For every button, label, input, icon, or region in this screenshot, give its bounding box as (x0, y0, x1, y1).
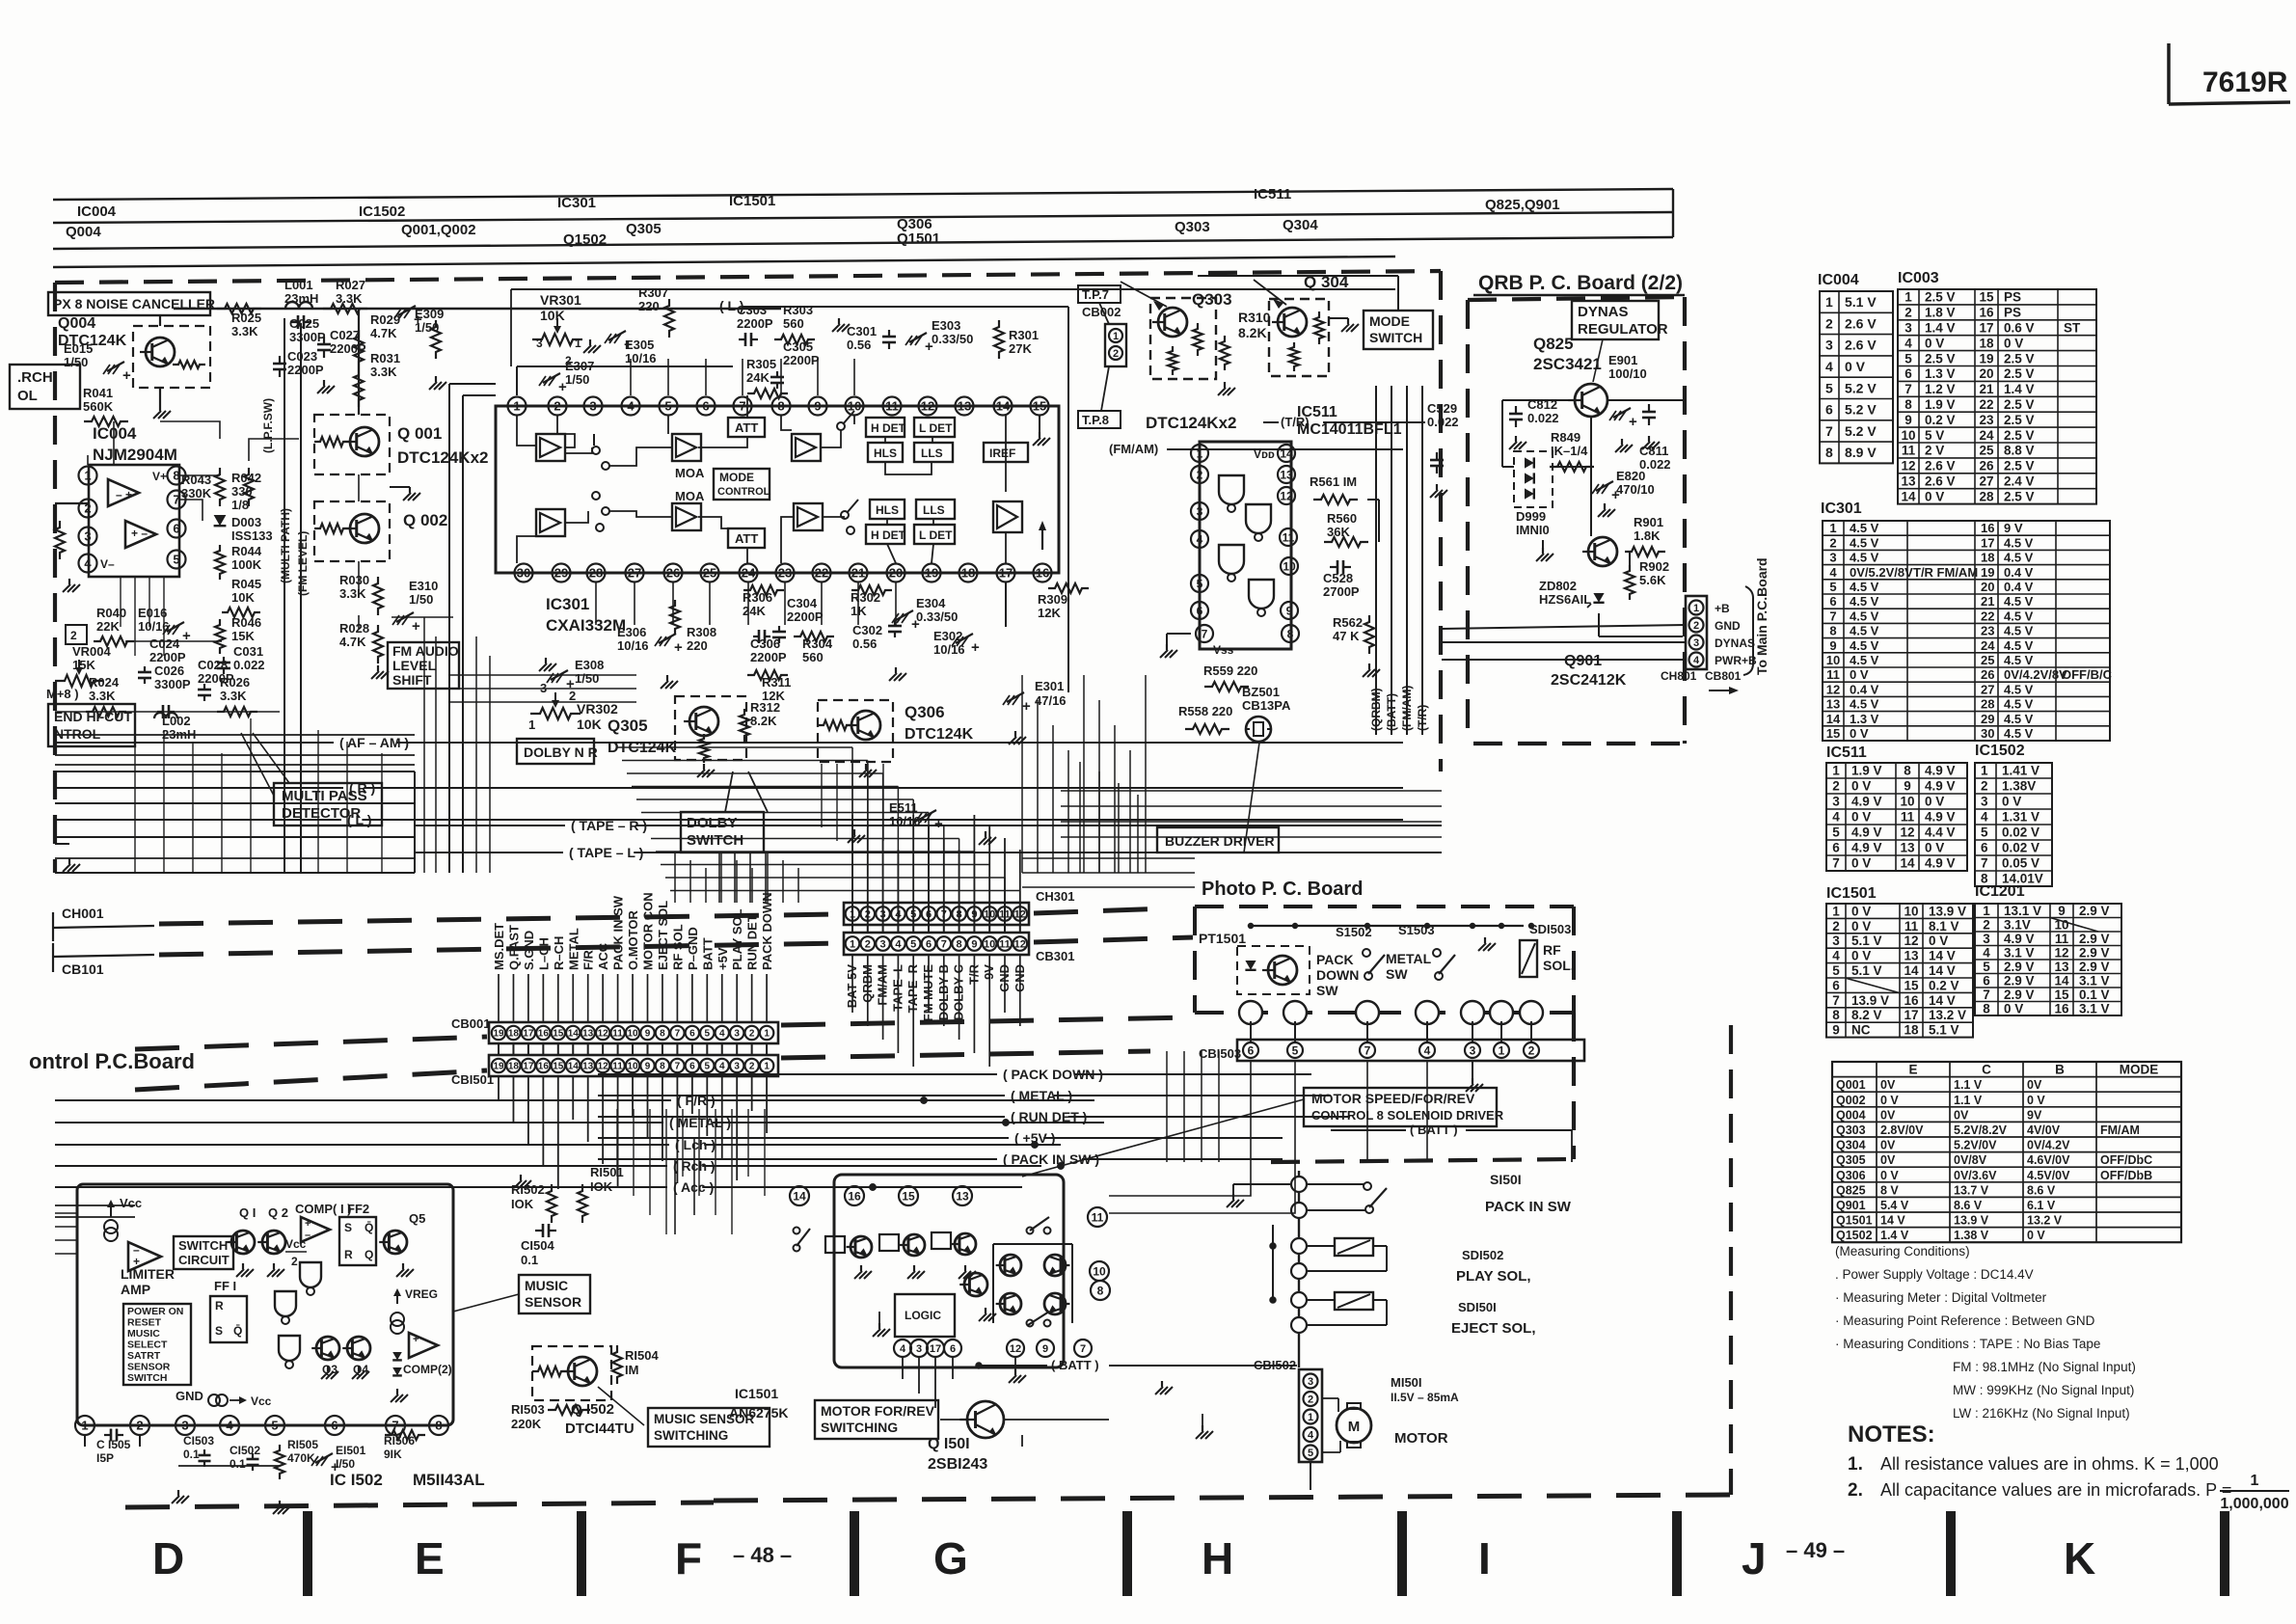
wire CB001-CB1501 join 1 (766, 1043, 768, 1055)
pin IC511-11 (1280, 528, 1297, 546)
svg-text:8.1 V: 8.1 V (1929, 919, 1959, 934)
wire CB1501-1 down (766, 1076, 768, 1133)
wire CB001-CB1501 join 5 (706, 1043, 708, 1055)
svg-text:MUSIC: MUSIC (525, 1278, 568, 1293)
wire IC301 inner 1 (517, 416, 536, 446)
pin IC511-10 (1281, 557, 1298, 575)
svg-text:7: 7 (1904, 382, 1912, 396)
pin CB1503-1 (1494, 1042, 1509, 1058)
svg-text:1: 1 (1981, 764, 1988, 778)
pin CB001-1 (760, 1026, 773, 1040)
switch cell lower (592, 492, 600, 500)
ground left low (55, 843, 69, 845)
wire IC511 right loop (1367, 499, 1379, 501)
svg-text:1.4 V: 1.4 V (1880, 1229, 1909, 1242)
svg-text:2: 2 (1528, 1043, 1535, 1057)
wire MPX inner c (113, 421, 115, 465)
svg-text:+5V: +5V (716, 947, 730, 970)
box L DET lower (914, 525, 955, 544)
svg-text:+B: +B (1715, 602, 1730, 615)
wire CB1501-9 down (647, 1076, 649, 1139)
pin IC511-2 (1191, 466, 1208, 483)
wire center risers to CH301 staircase (851, 747, 853, 903)
svg-text:Q305: Q305 (608, 717, 648, 735)
wire dynas pointer (1593, 339, 1603, 382)
svg-text:4.7K: 4.7K (339, 635, 366, 649)
transistor Q1502 (568, 1357, 597, 1386)
svg-text:HZS6AIL: HZS6AIL (1539, 592, 1591, 607)
svg-text:2200P: 2200P (149, 650, 186, 664)
svg-text:220K: 220K (511, 1417, 542, 1431)
wire CB1503 pins to bus (1250, 1061, 1252, 1162)
svg-text:13: 13 (958, 399, 971, 414)
svg-text:8.6 V: 8.6 V (1954, 1199, 1983, 1212)
pin IC301-21 (850, 564, 868, 582)
wire IC301 inner 20 (886, 519, 888, 525)
svg-text:3.3K: 3.3K (89, 689, 116, 703)
pin IC301-2 (549, 397, 567, 416)
svg-text:R902: R902 (1639, 559, 1669, 574)
svg-text:( TAPE – R ): ( TAPE – R ) (571, 818, 647, 833)
svg-text:0 V: 0 V (1925, 841, 1944, 855)
wire left mesh horizontals (55, 734, 415, 736)
transistor Q002 dashed box (314, 501, 390, 561)
svg-text:0 V: 0 V (1850, 667, 1869, 682)
svg-text:21: 21 (1981, 594, 1994, 609)
ground IC1502 a (177, 1490, 179, 1496)
svg-text:MOTOR FOR/REV: MOTOR FOR/REV (821, 1403, 935, 1419)
svg-text:1/50: 1/50 (575, 671, 599, 686)
svg-text:SENSOR: SENSOR (525, 1294, 581, 1310)
svg-text:R561 IM: R561 IM (1310, 474, 1357, 489)
svg-text:IC1501: IC1501 (1826, 885, 1877, 902)
box DOLBY SWITCH (681, 812, 764, 853)
pin CB001-9 (640, 1026, 654, 1040)
ground Q4 (358, 1366, 360, 1371)
wire IC301 inner 17 (746, 548, 748, 563)
svg-text:DTC124K: DTC124K (905, 726, 974, 743)
ground C027 (323, 380, 325, 386)
svg-text:1: 1 (1499, 1043, 1505, 1057)
svg-text:4: 4 (627, 399, 635, 414)
svg-text:DTC124Kx2: DTC124Kx2 (397, 448, 489, 467)
H-bridge transistor TL (1000, 1255, 1021, 1276)
transistor Q306 (851, 711, 880, 740)
svg-text:T.P.8: T.P.8 (1082, 413, 1109, 427)
svg-text:VR301: VR301 (540, 292, 581, 308)
current source bottom (208, 1394, 220, 1406)
svg-text:MUSIC: MUSIC (127, 1328, 160, 1340)
wire motor bottom rail (1004, 1419, 1109, 1421)
svg-text:M+8 ): M+8 ) (46, 687, 79, 701)
wire Q001 collector drop (358, 474, 360, 501)
connector CB1502 (1299, 1369, 1322, 1462)
switch S1501 junction b (1291, 1203, 1307, 1218)
svg-text:E310: E310 (409, 579, 438, 593)
ground pin12 (1014, 1358, 1016, 1369)
box LLS upper (914, 443, 953, 462)
wire CB001-CB1501 join 3 (736, 1043, 738, 1055)
svg-text:21: 21 (851, 566, 865, 581)
svg-text:5: 5 (1292, 1043, 1299, 1057)
amp cell upper-mid (792, 434, 821, 461)
pin CH301-4 (891, 907, 905, 921)
net (T/R) vertical (1421, 386, 1423, 735)
gate IC511 D (1249, 580, 1274, 609)
pin IC004-5 (168, 551, 186, 569)
ground CB1503-3 (1472, 1061, 1473, 1078)
wire MPX inner e (160, 421, 220, 439)
svg-text:5: 5 (1981, 826, 1988, 840)
wire CB001-CB1501 join 15 (557, 1043, 559, 1055)
svg-text:All capacitance values are in: All capacitance values are in microfarad… (1880, 1480, 2231, 1500)
svg-text:T/R FM/AM: T/R FM/AM (1913, 565, 1978, 580)
svg-text:C: C (1982, 1063, 1991, 1077)
svg-text:V+: V+ (152, 470, 167, 483)
svg-text:8: 8 (1904, 397, 1912, 412)
svg-text:4.5 V: 4.5 V (2004, 653, 2034, 667)
pin IC004-6 (168, 520, 186, 538)
pin CB1501-4 (716, 1059, 729, 1072)
ground IC1502 b (279, 1501, 281, 1506)
svg-text:4.9 V: 4.9 V (1925, 779, 1956, 794)
svg-text:4.5 V: 4.5 V (1850, 638, 1879, 653)
svg-text:13: 13 (1904, 949, 1919, 963)
box SWITCH CIRCUIT (174, 1236, 233, 1269)
svg-text:4.5 V: 4.5 V (1850, 580, 1879, 594)
wire verticals right-mid band (1021, 675, 1023, 873)
svg-text:23: 23 (1979, 413, 1994, 427)
svg-text:10: 10 (627, 1029, 638, 1040)
svg-text:( +5V ): ( +5V ) (1014, 1130, 1055, 1146)
pin photo-2 (1520, 1001, 1543, 1024)
svg-text:2.9 V: 2.9 V (2004, 973, 2035, 988)
ground C529 (1436, 484, 1438, 490)
switch S1501 (1364, 1182, 1371, 1190)
wire vertical risers dolby to connector (674, 853, 676, 903)
ground Q1 (242, 1263, 244, 1269)
net (METAL) (55, 1122, 663, 1123)
svg-text:C026: C026 (154, 663, 184, 678)
wire mode switch feed (1198, 275, 1398, 277)
wire CB1501-5 down (706, 1076, 708, 1136)
svg-text:IC1501: IC1501 (729, 193, 775, 209)
pin CH301-8 (952, 907, 966, 921)
wire CB301-6 up (928, 903, 930, 925)
svg-text:SWITCH: SWITCH (687, 832, 743, 849)
svg-text:4.5 V: 4.5 V (1850, 609, 1879, 623)
main board dashed border top (55, 271, 1441, 283)
wire CB1503 bus turns (1109, 1162, 1251, 1196)
wire IC301 inner 22 (1005, 532, 1007, 563)
wire IC301 left verticals down (423, 617, 425, 873)
gate NOR upper (300, 1262, 321, 1287)
svg-text:2.5 V: 2.5 V (2004, 459, 2035, 474)
pin CB1501-17 (522, 1059, 535, 1072)
svg-text:7: 7 (1364, 1043, 1371, 1057)
svg-text:(FM LEVEL): (FM LEVEL) (296, 531, 310, 596)
svg-text:16: 16 (1036, 566, 1049, 581)
ground right1 (1202, 1414, 1203, 1425)
svg-text:0.4 V: 0.4 V (2004, 580, 2034, 594)
svg-text:13.2 V: 13.2 V (1929, 1008, 1966, 1022)
svg-text:S: S (215, 1324, 223, 1338)
svg-text:2: 2 (749, 1029, 755, 1040)
pin CB1501-19 (492, 1059, 505, 1072)
svg-text:5: 5 (1825, 380, 1833, 395)
box IREF (984, 443, 1028, 462)
gate IC511 A (1219, 475, 1244, 504)
svg-text:4: 4 (1832, 810, 1840, 825)
svg-text:2SC2412K: 2SC2412K (1551, 672, 1627, 689)
gate NOR low (279, 1336, 300, 1361)
pin IC1501-10 (1090, 1261, 1109, 1281)
svg-text:Q901: Q901 (1836, 1199, 1866, 1212)
wire right rail vertical (1298, 1171, 1300, 1367)
svg-text:29: 29 (1981, 712, 1994, 726)
svg-text:7: 7 (1202, 627, 1208, 640)
junction batt right (1270, 1243, 1276, 1249)
svg-text:Q1501: Q1501 (1836, 1214, 1873, 1228)
svg-text:9: 9 (1904, 779, 1911, 794)
ground Q5 (402, 1263, 404, 1269)
svg-text:K: K (2064, 1533, 2095, 1583)
svg-text:14: 14 (568, 1029, 580, 1040)
connector CB001 (489, 1022, 778, 1043)
wire MPX inner a (179, 474, 220, 476)
box POWER ON RESET... (123, 1304, 191, 1385)
svg-text:OFF/DbB: OFF/DbB (2100, 1169, 2152, 1182)
wire IC301 inner 10 (853, 416, 855, 424)
pin CB801-4 (1689, 653, 1704, 667)
transistor Q2 (262, 1231, 285, 1254)
wire CB001-CB1501 join 18 (512, 1043, 514, 1055)
svg-text:3: 3 (1832, 795, 1840, 809)
wire CB1503-7 (1366, 1021, 1368, 1042)
svg-text:RI504: RI504 (625, 1348, 659, 1363)
svg-text:14: 14 (568, 1062, 580, 1072)
svg-text:4.5 V: 4.5 V (2004, 697, 2034, 712)
svg-text:1: 1 (2251, 1473, 2259, 1489)
junction photo rail (1293, 924, 1298, 929)
pin photo-7 (1356, 1001, 1379, 1024)
wire ruler line 3 (53, 237, 1673, 249)
svg-text:4: 4 (1904, 336, 1912, 350)
svg-text:2.9 V: 2.9 V (2079, 960, 2110, 974)
svg-text:4.5 V: 4.5 V (2004, 551, 2034, 565)
svg-text:0 V: 0 V (1851, 856, 1871, 871)
ground E511 a (853, 829, 855, 835)
svg-text:IC I502: IC I502 (330, 1471, 383, 1489)
svg-text:21: 21 (1979, 382, 1994, 396)
svg-text:NOTES:: NOTES: (1848, 1421, 1935, 1448)
svg-text:1.9 V: 1.9 V (1925, 397, 1956, 412)
svg-text:DYNAS: DYNAS (1715, 636, 1755, 650)
wire pointer motor box (1022, 1099, 1304, 1177)
ground E308 (545, 658, 547, 663)
wire CB001-CB1501 join 7 (676, 1043, 678, 1055)
svg-text:3: 3 (589, 399, 596, 414)
svg-text:19: 19 (1979, 351, 1993, 365)
wire CB1501-13 down (587, 1076, 589, 1142)
pin IC511-3 (1191, 502, 1208, 520)
wire IC301 inner 13 (517, 536, 536, 563)
svg-text:10: 10 (627, 1062, 638, 1072)
ground Q2 (273, 1263, 275, 1269)
wire dolby bus verticals (718, 853, 720, 903)
wire q1502 pointer (598, 1387, 644, 1425)
wire CB301-2 up (867, 903, 869, 925)
photo transistor PT1501 (1268, 956, 1297, 985)
svg-text:1: 1 (81, 1419, 88, 1433)
pin IC1502-2 (130, 1416, 149, 1435)
wire CB301-7 up (943, 903, 945, 925)
svg-text:Q I50I: Q I50I (928, 1436, 970, 1452)
resistor Q305 emitter (699, 734, 709, 763)
svg-text:2: 2 (1829, 535, 1836, 550)
svg-text:19: 19 (925, 566, 938, 581)
pin CB301-6 (922, 936, 936, 951)
svg-text:Q̄: Q̄ (365, 1221, 373, 1234)
svg-text:7: 7 (1829, 609, 1836, 623)
test point T.P.7 (1078, 285, 1121, 303)
svg-text:4: 4 (1825, 359, 1833, 374)
svg-text:12: 12 (1901, 459, 1915, 474)
svg-text:1.3 V: 1.3 V (1850, 712, 1879, 726)
box MODE CONTROL (714, 469, 770, 500)
connector CH301 (844, 903, 1029, 925)
wire CB1501-10 down (632, 1076, 634, 1117)
transistor Q4 (347, 1337, 370, 1360)
svg-text:8.2K: 8.2K (1238, 325, 1267, 340)
pin CB001-5 (700, 1026, 714, 1040)
svg-text:14: 14 (793, 1189, 806, 1203)
svg-text:5: 5 (1197, 577, 1203, 590)
svg-text:9: 9 (2058, 904, 2066, 918)
svg-text:8: 8 (1287, 627, 1294, 640)
svg-text:0.33/50: 0.33/50 (932, 332, 973, 346)
switch pin22 lower (841, 511, 849, 519)
svg-text:5.2 V: 5.2 V (1845, 402, 1877, 418)
wire CH301-10 riser (988, 826, 990, 903)
svg-text:0 V: 0 V (1880, 1094, 1899, 1107)
svg-text:+: + (925, 338, 933, 355)
junction photo rail (1529, 924, 1534, 929)
diode D999 a (1525, 457, 1534, 468)
svg-text:SI50I: SI50I (1490, 1172, 1522, 1187)
svg-text:3: 3 (1197, 504, 1203, 518)
svg-text:3.1V: 3.1V (2004, 917, 2031, 932)
svg-text:3: 3 (1825, 338, 1833, 353)
svg-text:4: 4 (719, 1029, 725, 1040)
svg-text:2.9 V: 2.9 V (2079, 945, 2110, 960)
svg-text:MS.DET: MS.DET (492, 923, 506, 970)
svg-text:IC1201: IC1201 (1975, 883, 2025, 900)
pin CB301-8 (952, 936, 966, 951)
svg-text:22: 22 (1979, 397, 1993, 412)
svg-text:SW: SW (1386, 966, 1408, 982)
pin IC1501-14 (790, 1186, 809, 1205)
svg-text:Q306: Q306 (1836, 1169, 1866, 1182)
solenoid SD1502 (1335, 1238, 1373, 1256)
svg-text:0 V: 0 V (1925, 489, 1944, 503)
pin IC1502-7 (386, 1416, 405, 1435)
svg-text:PACK DOWN: PACK DOWN (760, 892, 774, 970)
pin IC1501-15 (899, 1186, 918, 1205)
svg-text:2 V: 2 V (1925, 444, 1944, 458)
svg-text:BZ501: BZ501 (1242, 685, 1280, 699)
svg-text:G: G (933, 1533, 968, 1583)
svg-text:18: 18 (1981, 551, 1994, 565)
svg-text:24: 24 (1979, 428, 1994, 443)
svg-text:4: 4 (1829, 565, 1837, 580)
svg-text:20: 20 (1981, 580, 1994, 594)
pin IC1502-3 (176, 1416, 195, 1435)
wire CB1501-12 down (602, 1076, 604, 1164)
switch cell upper (592, 447, 600, 454)
pin IC301-29 (553, 564, 571, 582)
box DOLBY NR (517, 739, 594, 764)
svg-text:4.5V/0V: 4.5V/0V (2027, 1169, 2070, 1182)
IC U301 outline (496, 406, 1059, 573)
svg-text:12: 12 (1014, 938, 1026, 950)
svg-text:1/50: 1/50 (64, 355, 88, 369)
op-amp COMP2 (409, 1333, 438, 1358)
pin CB301-2 (861, 936, 876, 951)
transistor Q1501 (967, 1401, 1004, 1438)
resistor left rail vertical (55, 521, 65, 559)
svg-text:15: 15 (1033, 399, 1046, 414)
wire QRB outputs (1442, 625, 1686, 629)
wire CH301-8 riser (959, 850, 960, 903)
wire Q304 pointer (1254, 280, 1286, 305)
pin CB301-12 (1013, 936, 1028, 951)
ground E305 (589, 339, 591, 345)
svg-text:10: 10 (1901, 428, 1915, 443)
pin IC301-14 (994, 397, 1013, 416)
pin CB1502-5 (1304, 1446, 1318, 1460)
svg-text:6: 6 (926, 938, 932, 950)
pin IC301-25 (701, 564, 719, 582)
ground Q3 (327, 1366, 329, 1371)
svg-text:10: 10 (1093, 1264, 1106, 1278)
wire mid risers right (1079, 762, 1081, 873)
svg-text:DYNAS: DYNAS (1578, 304, 1629, 320)
svg-text:3: 3 (1904, 320, 1912, 335)
svg-text:0 V: 0 V (1929, 934, 1948, 948)
grid tick bar (303, 1511, 312, 1596)
svg-text:1: 1 (1983, 904, 1990, 918)
svg-text:1: 1 (1693, 603, 1699, 614)
svg-text:5.4 V: 5.4 V (1880, 1199, 1909, 1212)
svg-text:12: 12 (598, 1062, 609, 1072)
svg-text:0 V: 0 V (2004, 1001, 2023, 1015)
svg-text:11: 11 (612, 1029, 623, 1040)
svg-text:( PACK IN SW ): ( PACK IN SW ) (1003, 1151, 1099, 1167)
svg-text:DETECTOR: DETECTOR (282, 805, 361, 822)
svg-text:2200P: 2200P (737, 316, 773, 331)
driver cell 1 transistor (851, 1236, 872, 1258)
svg-text:0.02 V: 0.02 V (2002, 841, 2039, 855)
svg-text:0.33/50: 0.33/50 (916, 609, 958, 624)
wire IC301 top bus (516, 366, 518, 395)
svg-text:2SBI243: 2SBI243 (928, 1456, 987, 1473)
svg-text:CI504: CI504 (521, 1238, 554, 1253)
pin CH301-10 (983, 907, 997, 921)
svg-text:2: 2 (1832, 779, 1840, 794)
pin CB1501-9 (640, 1059, 654, 1072)
net (Lch) (55, 1144, 669, 1146)
